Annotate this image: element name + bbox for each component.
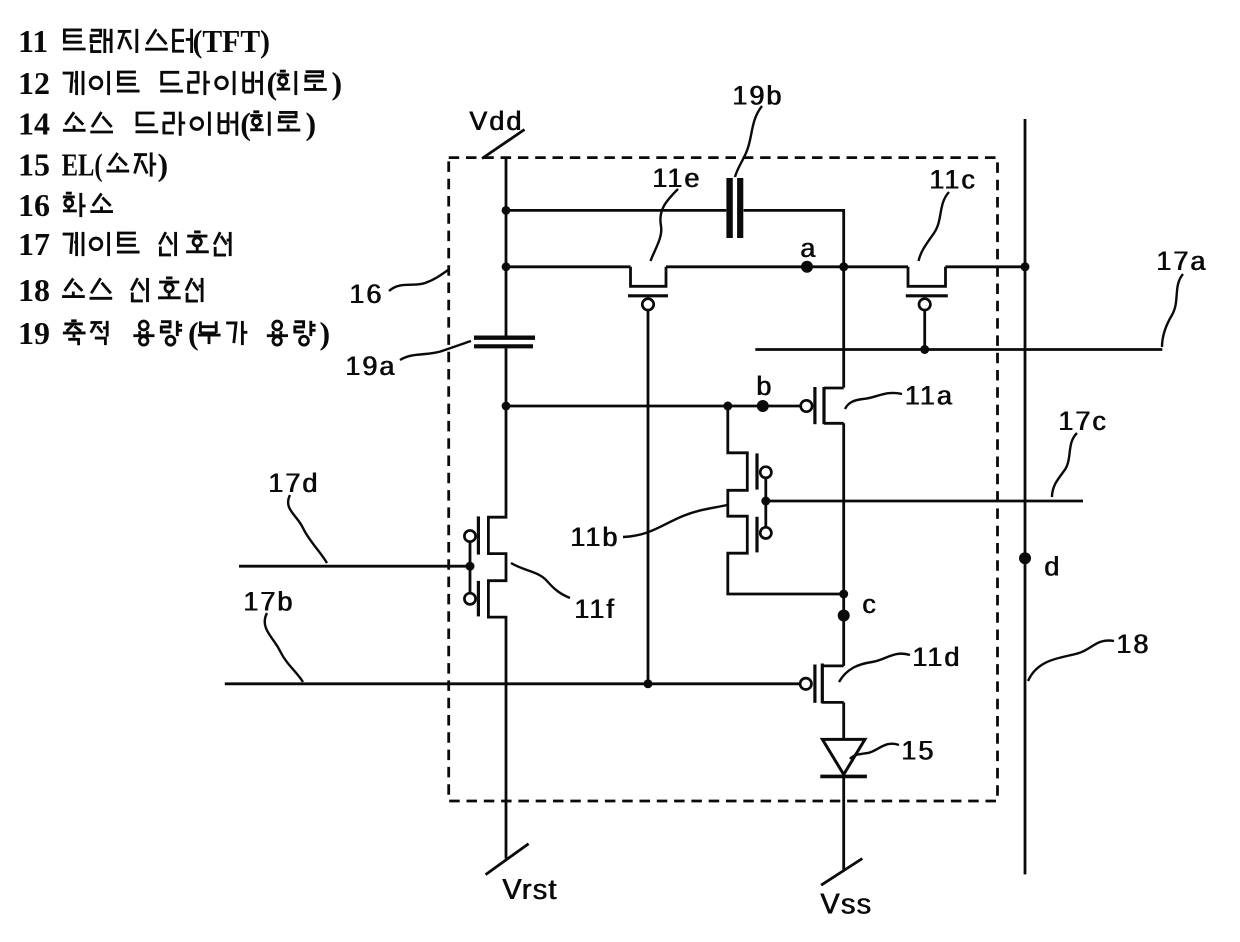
svg-text:(: ( [240,106,251,142]
svg-text:Vdd: Vdd [470,106,524,136]
node junction 11c gate / 17a [920,345,929,354]
leader 11a [845,393,902,409]
wire 11e gate to 17b line [647,310,650,684]
svg-text:Vrst: Vrst [503,874,558,906]
svg-text:11: 11 [18,23,48,59]
svg-text:17d: 17d [269,468,320,498]
legend line 11 transistor (TFT) [18,23,270,59]
leader 17b [265,613,303,682]
svg-text:): ) [158,147,169,183]
node a-line junction at x506 [502,262,511,271]
transistor 11d [800,664,844,704]
svg-text:17a: 17a [1157,246,1208,276]
Vdd supply slash [482,130,525,159]
svg-text:11c: 11c [930,165,978,195]
wire node b row [506,405,801,408]
node junction 11b gate / 17c [761,497,770,506]
svg-text:14: 14 [18,106,50,142]
wire gate signal line 17c [766,500,1083,503]
svg-text:b: b [757,371,772,401]
leader 16 [389,270,448,291]
Vss supply slash [821,859,862,886]
wire gate signal line 17b [225,682,801,685]
svg-text:(: ( [188,315,199,351]
pixel 16 boundary (dashed box) [449,158,998,801]
leader 11f [511,563,570,598]
node a [800,233,817,273]
svg-text:17: 17 [18,226,50,262]
legend line 16 pixel [18,187,113,223]
svg-text:17c: 17c [1059,406,1109,436]
leader 18 [1028,640,1114,681]
wire Vrst column / transistor 11f body path [488,348,506,858]
svg-text:19: 19 [18,315,50,351]
leader 17c [1052,433,1077,497]
svg-text:18: 18 [1117,629,1151,659]
svg-text:12: 12 [18,65,50,101]
node junction x843.7 on a-row [839,262,848,271]
svg-text:17b: 17b [244,587,295,617]
svg-text:): ) [320,315,331,351]
svg-text:15: 15 [902,736,936,766]
svg-text:16: 16 [350,279,384,309]
transistor 11c [906,267,948,310]
wire gate signal line 17a [755,348,1162,351]
svg-text:11f: 11f [575,594,617,624]
leader 15 [850,744,899,759]
svg-text:18: 18 [18,272,50,308]
wire source signal line 18 [1024,119,1027,874]
wire 11a drain column to node c region [842,423,845,666]
svg-text:d: d [1045,552,1060,582]
capacitor 19a [474,338,535,347]
leader 19b [735,106,762,177]
wire node a row (right segment to line 18) [946,265,1026,268]
node Vdd-C19b junction [502,206,511,215]
wire node a row (mid segment) [666,265,908,268]
legend line 18 source signal line [18,272,202,308]
leader 11d [839,654,910,682]
wire 11d drain to EL diode [842,702,845,739]
svg-text:(: ( [267,65,278,101]
legend line 14 source driver [18,106,316,142]
transistor 11f gates [464,516,478,616]
wire node a row (left segment) [506,265,631,268]
wire Vdd column (x=506) down to C19a [505,158,508,336]
wire Vdd node to C19b left plate [506,209,726,212]
wire gate signal line 17d [239,565,470,568]
leader 19a [400,341,471,360]
svg-text:(TFT): (TFT) [193,23,271,59]
leader 11c [919,192,950,261]
node junction 11e gate / 17b [644,679,653,688]
svg-text:a: a [801,233,817,263]
svg-text:16: 16 [18,187,50,223]
svg-text:11b: 11b [571,522,620,552]
Vrst supply slash [486,844,529,875]
leader 17a [1162,274,1183,347]
svg-text:c: c [863,589,877,619]
EL diode 15 [820,739,867,776]
wire EL cathode to Vss [842,776,845,869]
transistor 11b gates [757,453,771,552]
svg-text:19b: 19b [733,81,784,111]
node junction b-row / 11b body [723,402,732,411]
legend line 17 gate signal line [18,226,230,262]
transistor 11a [801,387,844,424]
leader 17d [288,495,327,563]
svg-text:EL(: EL( [62,147,103,183]
capacitor 19b [730,178,741,238]
leader 11b [623,505,727,537]
node junction a-row / source line 18 [1021,262,1030,271]
node c [838,589,877,622]
svg-text:11d: 11d [913,642,962,672]
wire C19b right plate to column x843.7 [744,210,844,387]
legend line 15 EL element [18,147,168,183]
svg-text:): ) [306,106,317,142]
transistor 11b body path [728,406,844,594]
transistor 11e [628,267,668,310]
svg-text:11a: 11a [905,381,954,411]
node b [756,371,772,412]
node junction 11f gate / 17d [466,562,475,571]
node junction 11b bottom / column [839,590,848,599]
leader 11e [651,189,679,261]
wire 11c gate stub to 17a [923,310,926,350]
legend line 12 gate driver [18,65,342,101]
svg-text:15: 15 [18,147,50,183]
legend line 19 storage capacitance [18,315,330,351]
svg-text:19a: 19a [346,351,397,381]
svg-text:Vss: Vss [821,889,873,921]
svg-text:): ) [332,65,343,101]
node d [1019,552,1060,582]
node b-line junction at x506 [502,402,511,411]
